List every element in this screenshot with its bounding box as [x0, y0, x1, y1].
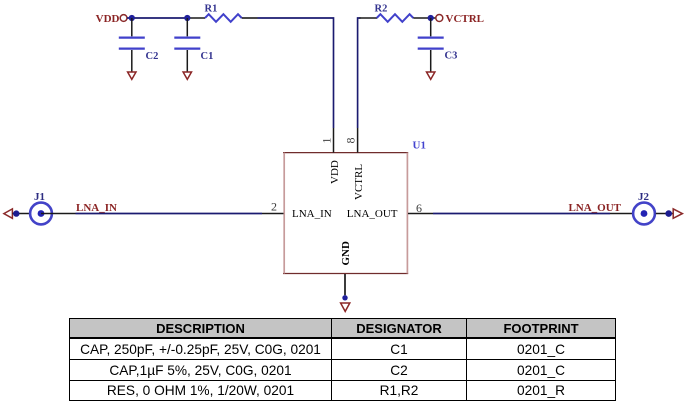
- connector J1: [30, 191, 52, 224]
- svg-text:VCTRL: VCTRL: [446, 13, 485, 25]
- capacitor C3: [418, 18, 458, 72]
- pin 1 stub (VDD): [333, 128, 335, 153]
- svg-text:LNA_IN: LNA_IN: [76, 202, 117, 214]
- svg-text:LNA_OUT: LNA_OUT: [347, 208, 398, 220]
- BOM table: [69, 318, 616, 401]
- IC U1 body: [283, 153, 408, 274]
- svg-text:2: 2: [271, 200, 277, 214]
- svg-text:C2: C2: [146, 51, 159, 62]
- svg-text:R1: R1: [205, 4, 218, 15]
- svg-text:U1: U1: [413, 140, 426, 152]
- svg-text:8: 8: [344, 138, 358, 144]
- junction dot at right port: [665, 210, 672, 217]
- connector J2: [633, 191, 655, 224]
- resistor R2 right lead and wire to VCTRL stub: [413, 17, 436, 19]
- wire J2 to port: [656, 213, 673, 215]
- capacitor C1: [174, 18, 213, 72]
- pin 2 stub (LNA_IN): [262, 213, 284, 215]
- ground below U1: [341, 303, 350, 311]
- ground under C1: [183, 72, 191, 79]
- svg-text:6: 6: [416, 201, 422, 215]
- capacitor C2: [119, 18, 159, 72]
- wire VDD rail: [127, 17, 188, 19]
- svg-text:C1: C1: [201, 51, 214, 62]
- pin 6 stub (LNA_OUT): [408, 213, 433, 215]
- resistor R1 left lead: [187, 17, 205, 19]
- junction dot at left port: [13, 210, 19, 216]
- node dot below U1: [342, 295, 347, 300]
- svg-text:J1: J1: [34, 191, 45, 203]
- wire J1 to U1 pin 2: [41, 213, 76, 215]
- svg-text:LNA_OUT: LNA_OUT: [568, 202, 621, 214]
- resistor R2: [375, 4, 414, 22]
- svg-text:VDD: VDD: [329, 160, 341, 184]
- net stub circle VDD: [120, 15, 127, 22]
- ground under C2: [128, 72, 136, 79]
- node junction at C1: [184, 15, 190, 21]
- GND pin stub below U1: [344, 274, 346, 295]
- resistor R2 left lead: [360, 17, 378, 19]
- ground under C3: [427, 72, 435, 79]
- port arrow right (off-page): [673, 209, 682, 218]
- net stub circle VCTRL: [436, 15, 443, 22]
- port arrow left (off-page): [4, 209, 13, 218]
- svg-text:GND: GND: [340, 241, 352, 266]
- svg-text:VDD: VDD: [96, 13, 120, 25]
- svg-text:J2: J2: [638, 191, 650, 203]
- resistor R1: [205, 4, 242, 22]
- svg-text:VCTRL: VCTRL: [353, 164, 365, 200]
- svg-text:R2: R2: [375, 4, 388, 15]
- wire down from R2 left end to pin 8: [358, 18, 361, 128]
- svg-text:LNA_IN: LNA_IN: [292, 208, 332, 220]
- svg-text:1: 1: [320, 138, 334, 144]
- wire U1 pin 6 to J2: [433, 213, 610, 215]
- wire port to J1: [13, 213, 31, 215]
- pin 8 stub (VCTRL): [357, 128, 359, 153]
- wire R1 to corner and down to pin 1: [258, 18, 334, 128]
- node junction at C2: [129, 15, 135, 21]
- resistor R1 right lead: [242, 17, 258, 19]
- svg-text:C3: C3: [445, 51, 458, 62]
- node junction at C3: [428, 15, 434, 21]
